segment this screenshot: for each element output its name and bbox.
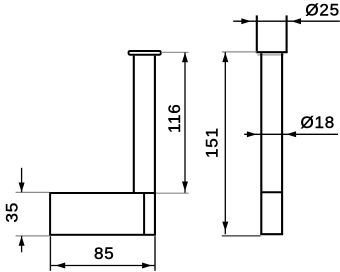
arrowhead 35 bottom pointing up: [19, 236, 25, 246]
dimension line D25: [233, 20, 340, 22]
svg-text:35: 35: [2, 202, 21, 223]
arrowhead 35 top pointing down: [19, 183, 25, 193]
extension line bottom of 116 from box top: [156, 192, 189, 194]
svg-text:Ø18: Ø18: [300, 113, 335, 132]
extension line bottom of 35: [16, 235, 50, 237]
front view: joint line in box near right end: [143, 194, 145, 235]
arrowhead D25 right pointing left: [291, 18, 301, 24]
dimension line 116: [184, 53, 186, 193]
arrowhead 151 bottom: [222, 222, 228, 232]
extension line top of 151: [222, 51, 257, 53]
dimension line 35 upper segment: [21, 168, 23, 192]
arrowhead D18 right pointing left: [286, 131, 296, 137]
dimension line 151: [224, 52, 226, 234]
svg-text:85: 85: [94, 244, 115, 263]
dimension line 35 lower segment: [21, 236, 23, 252]
dimension line 85: [51, 265, 155, 267]
front view: post left edge: [133, 56, 135, 193]
arrowhead 151 top: [222, 52, 228, 62]
arrowhead 116 top: [182, 53, 188, 63]
front view: post right edge merged with box right edge: [154, 56, 156, 235]
svg-text:116: 116: [165, 103, 184, 133]
arrowhead D25 left pointing right: [241, 18, 251, 24]
side view: body right edge: [281, 53, 283, 235]
front view: roll holder box: [50, 193, 155, 235]
arrowhead 85 right pointing right: [142, 263, 152, 269]
side view: body left edge: [260, 53, 262, 235]
side view: joint line: [260, 191, 283, 193]
side view: flange underline gray: [257, 54, 284, 56]
svg-text:151: 151: [203, 127, 222, 158]
arrowhead 85 left pointing left: [56, 263, 66, 269]
dimension line D18: [244, 133, 338, 135]
arrowhead 116 bottom: [182, 182, 188, 192]
extension line top of 35: [16, 191, 50, 193]
extension line top of 116 from cap: [161, 51, 189, 53]
side view: cap bottom edge: [256, 51, 288, 53]
side view: bottom edge: [260, 233, 283, 235]
side view: cap right edge: [286, 15, 288, 52]
arrowhead D18 left pointing right: [247, 131, 257, 137]
svg-text:Ø25: Ø25: [305, 1, 340, 20]
side view: cap left edge: [256, 15, 258, 52]
extension line 85 right below box: [154, 236, 156, 271]
extension line bottom of 151: [222, 235, 261, 237]
front view: cap flange: [129, 51, 161, 55]
extension line 85 left below box: [49, 236, 51, 271]
